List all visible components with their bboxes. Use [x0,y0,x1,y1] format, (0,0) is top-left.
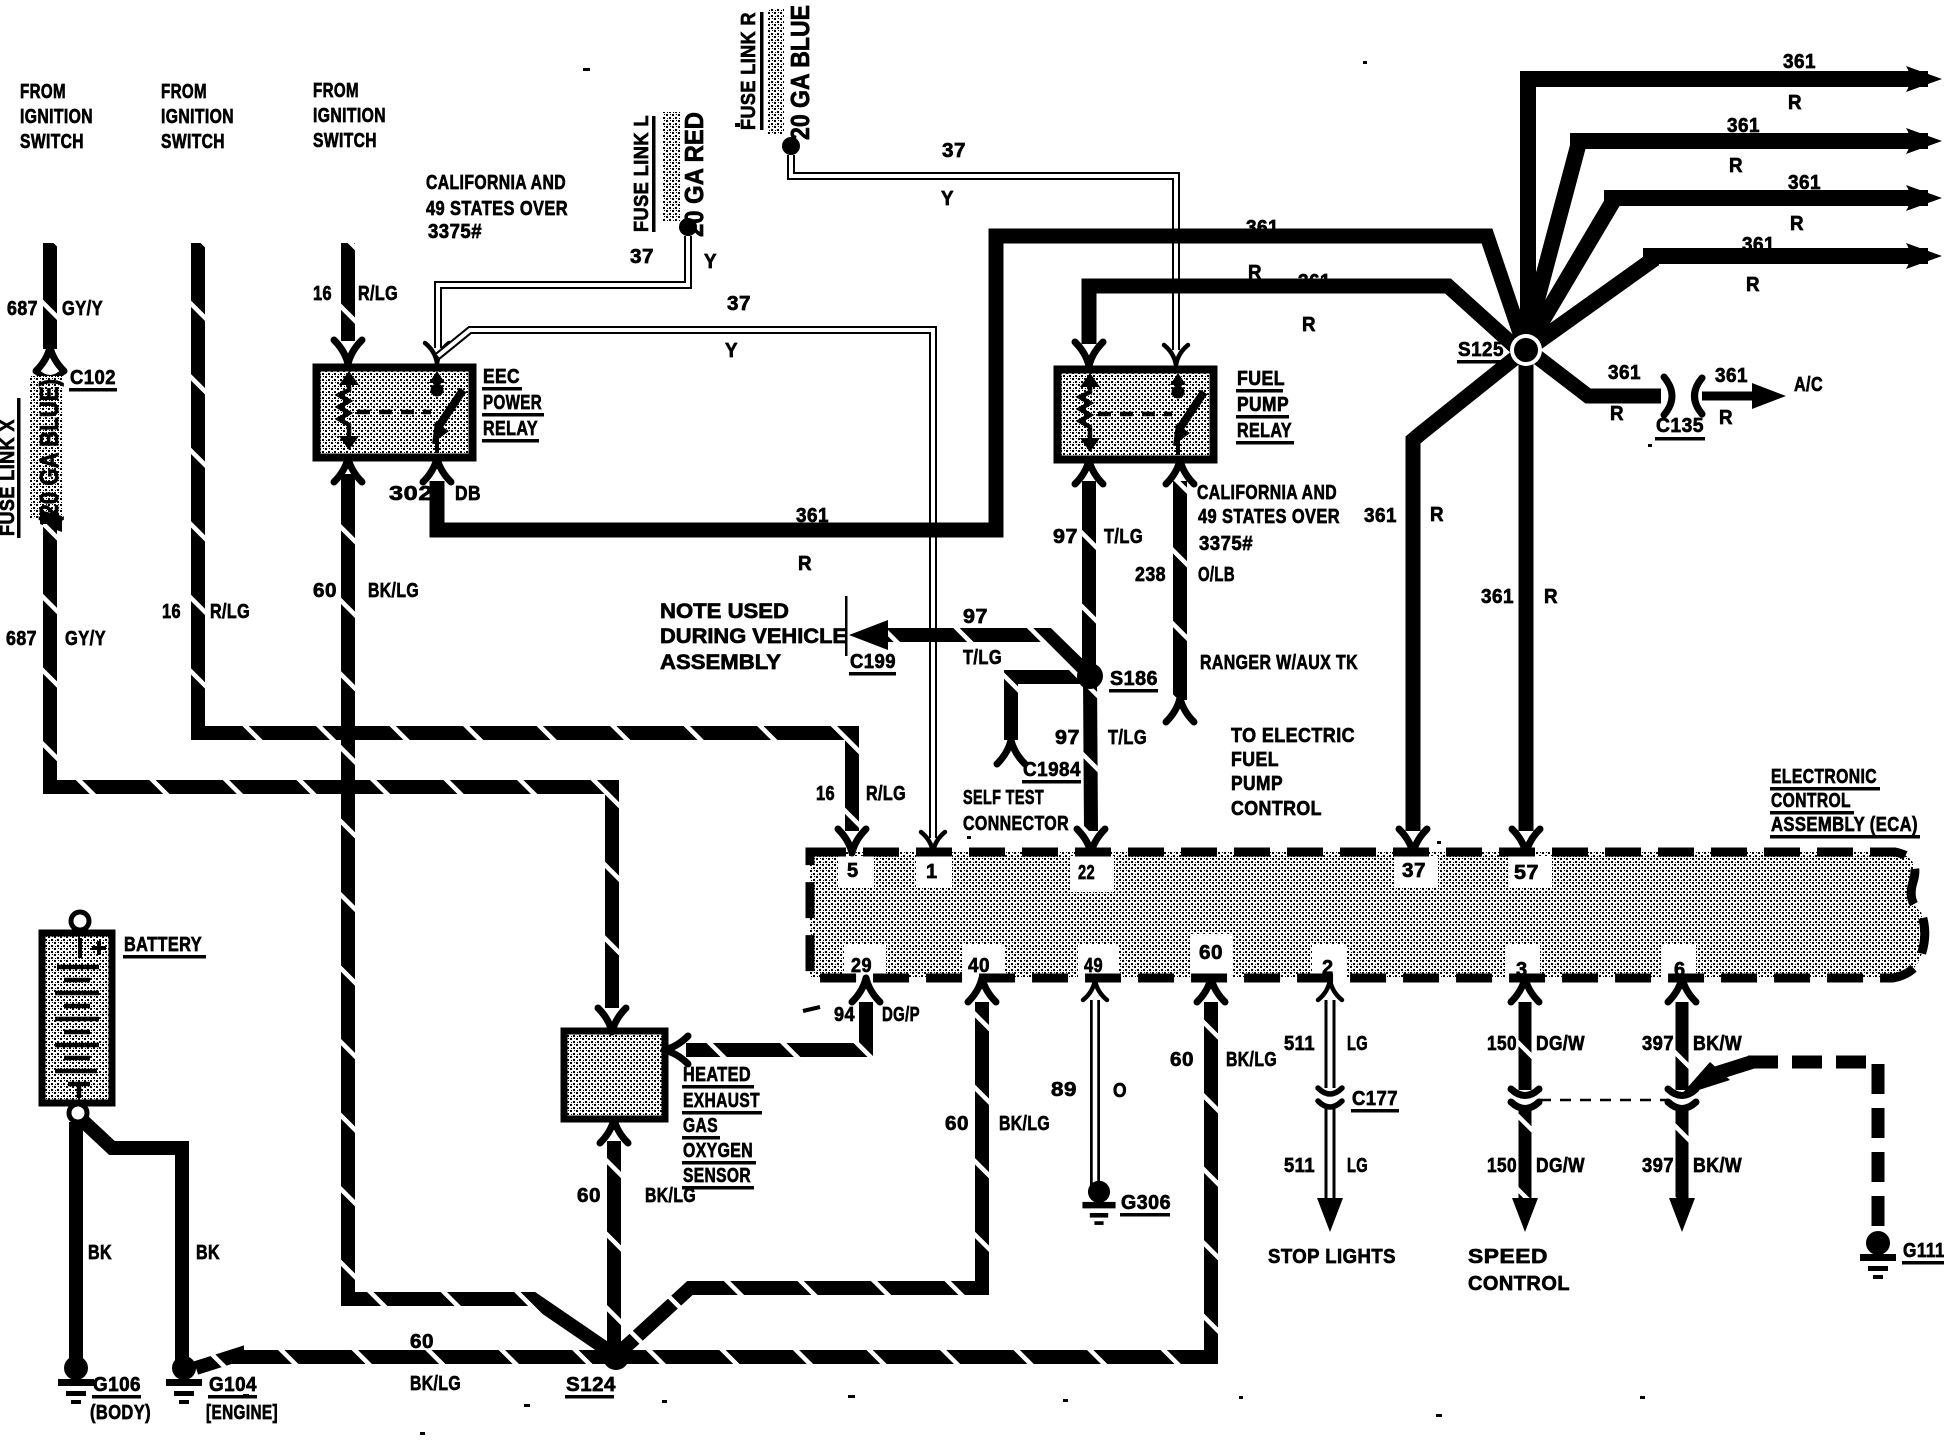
label 37 Y (EEC to ECA wire) [725,293,751,362]
ground G104 [166,1356,202,1404]
label 89 O [1051,1079,1127,1102]
svg-text:RANGER W/AUX TK: RANGER W/AUX TK [1200,652,1358,674]
wire 361 R from S125 to arrow line 3 [1529,198,1928,343]
svg-text:57: 57 [1514,862,1539,884]
ECA pin cutout 29 [844,944,886,978]
svg-text:37: 37 [1402,860,1426,882]
svg-text:R: R [1544,586,1558,608]
fork at EEC relay pin (bottom-left) [334,458,362,482]
svg-text:R/LG: R/LG [210,601,250,623]
svg-text:BK/LG: BK/LG [410,1373,461,1395]
svg-text:R: R [1719,407,1733,429]
svg-text:Y: Y [941,188,954,210]
wire 97 T/LG from S186 to self test connector C1984 [1011,677,1085,740]
fork at EEC relay pin (bottom-right) [423,458,451,482]
wire 16 R/LG from ignition switch (middle) to ECA pin 5 [198,243,852,831]
label S125 [1458,339,1504,361]
svg-text:LG: LG [1347,1155,1368,1177]
svg-text:Y: Y [704,251,717,273]
fork at HEGO right [664,1036,688,1064]
svg-text:302: 302 [389,483,433,505]
fuse link X lower connector wedge [40,510,62,532]
label 16 R/LG (near ECA pin 5) [816,783,906,805]
wire 16 R/LG from ignition switch (right) to EEC relay [341,243,355,341]
label S186 [1110,668,1158,690]
speck marks [243,61,1652,1435]
label FROM IGNITION SWITCH (left) [20,81,93,153]
wire 511 LG thin from ECA pin 2 to stop lights [1325,1000,1336,1205]
svg-text:OXYGEN: OXYGEN [683,1140,753,1162]
svg-text:SWITCH: SWITCH [161,131,225,153]
svg-text:40: 40 [968,955,990,977]
label BK (G106 wire) [88,1242,112,1264]
fuse link R terminal dot [782,137,800,155]
node S125 [1510,334,1542,366]
svg-text:C1984: C1984 [1023,759,1081,781]
fuel pump relay [1058,370,1214,460]
svg-text:CALIFORNIA AND: CALIFORNIA AND [1197,482,1337,504]
ground G306 [1082,1181,1115,1225]
fork at ECA pin 1 [921,832,945,852]
svg-text:FROM: FROM [313,80,359,102]
svg-text:397: 397 [1642,1033,1674,1055]
svg-text:BK/W: BK/W [1693,1033,1742,1055]
wire 302 DB / 361 R from EEC relay to S125 [437,236,1523,530]
thin dashed line between connector breaks [1540,1099,1668,1102]
wire 97 T/LG from C199 to S186 [880,635,1090,676]
svg-text:SENSOR: SENSOR [683,1165,751,1187]
fuse link L terminal dot [679,218,697,236]
label 16 R/LG (right wire) [313,283,398,305]
svg-text:FUEL: FUEL [1231,749,1279,771]
svg-text:R: R [1430,504,1444,526]
wire 60 BK/LG from EEC relay down and to S124 [348,474,612,1353]
fork at EEC relay pin (top-left) [334,340,362,364]
label 397 BK/W (lower) [1642,1155,1742,1177]
svg-text:511: 511 [1284,1155,1315,1177]
label 60 BK/LG (EEC relay wire) [313,580,419,602]
svg-text:BK/LG: BK/LG [999,1113,1050,1135]
label C177 [1352,1088,1398,1110]
wire 361 R from S125 to arrow line 2 [1525,141,1928,345]
connector C135 arcs [1664,377,1672,415]
fork at ECA pin 3 [1511,978,1539,1002]
svg-text:BK: BK [196,1242,220,1264]
wire 150 DG/W from ECA pin 3 to speed control [1519,1002,1532,1205]
label C102 [70,367,116,389]
svg-text:CONTROL: CONTROL [1468,1273,1570,1295]
fork at ECA pin 6 [1668,978,1696,1002]
fork at ECA pin 57 [1512,829,1540,853]
connector break on pin 3 wire [1511,1089,1539,1096]
arrowhead into C199 [849,620,888,650]
svg-text:150: 150 [1487,1155,1517,1177]
arrowhead A/C [1752,383,1786,409]
wire 361 R from S125 up to arrow line 1 [1528,79,1928,345]
fork at C1984 [997,740,1025,764]
label RANGER W/AUX TK [1200,652,1358,674]
svg-text:16: 16 [816,783,835,805]
fuse link L band [663,112,680,222]
label 150 DG/W (upper) [1487,1033,1585,1055]
svg-text:361: 361 [1246,217,1279,239]
label 97 T/LG (relay wire) [1053,526,1143,548]
node S124 [603,1344,629,1370]
svg-text:T/LG: T/LG [963,647,1002,669]
svg-text:60: 60 [577,1185,601,1207]
svg-text:361: 361 [1783,51,1816,73]
svg-text:GY/Y: GY/Y [65,628,106,650]
ground G111 [1860,1231,1896,1279]
wire 238 O/LB from fuel pump relay (ranger aux tank) [1173,481,1187,700]
svg-text:BATTERY: BATTERY [124,934,202,956]
svg-text:37: 37 [630,246,654,268]
svg-text:PUMP: PUMP [1231,773,1283,795]
fuse link R band [768,8,784,135]
svg-text:361: 361 [1715,365,1748,387]
wire 397 BK/W from ECA pin 6 to speed control [1676,1002,1689,1205]
HEGO sensor box [564,1031,665,1119]
label 361 R (line 1) [1783,51,1816,114]
battery [42,912,112,1122]
label 97 T/LG (pin 22 wire) [1055,727,1147,749]
node S186 [1077,663,1103,689]
wire 97 T/LG from S186 down to ECA pin 22 [1090,676,1091,831]
label 361 R (right of C135) [1715,365,1748,429]
electronic control assembly ECA box [810,852,1925,978]
svg-text:49 STATES OVER: 49 STATES OVER [1198,506,1340,528]
label TO ELECTRIC FUEL PUMP CONTROL [1231,725,1355,820]
svg-text:TO ELECTRIC: TO ELECTRIC [1231,725,1355,747]
label SPEED CONTROL [1468,1246,1570,1295]
fork at fuel pump relay pin (top-left) [1075,342,1103,366]
svg-text:361: 361 [1298,271,1331,293]
svg-text:NOTE USED: NOTE USED [660,600,789,623]
label FROM IGNITION SWITCH (middle) [161,81,234,153]
ECA pin cutout 2 [1312,944,1346,978]
ECA pin cutout 5 [838,856,874,888]
fork at HEGO top [598,1008,626,1032]
label S124 [566,1374,616,1396]
label 60 BK/LG (HEGO bottom wire) [577,1185,696,1207]
ECA pin cutout 40 [962,944,1004,978]
ECA pin cutout 57 [1508,856,1552,888]
svg-text:687: 687 [6,628,37,650]
svg-text:3375#: 3375# [428,221,482,243]
label G106 (BODY) [90,1374,151,1424]
svg-text:SPEED: SPEED [1468,1246,1548,1268]
wire 97 T/LG from fuel pump relay to S186 [1082,481,1096,672]
svg-text:R: R [1788,92,1802,114]
svg-text:DG/P: DG/P [882,1004,920,1026]
label G104 [ENGINE] [206,1374,278,1424]
ECA pin cutout 37 [1394,856,1438,888]
wire BK battery to G106 [69,1122,83,1360]
label 37 Y (fuse link L wire) [630,246,717,273]
svg-text:BK/LG: BK/LG [1226,1049,1277,1071]
fork at ECA pin 5 [838,829,866,853]
svg-text:T/LG: T/LG [1108,727,1147,749]
label 361 R (line 3) [1788,172,1821,235]
svg-text:FUSE LINK L: FUSE LINK L [631,115,653,232]
svg-text:361: 361 [1608,362,1641,384]
label 37 Y (fuse link R wire) [941,140,966,210]
arrowhead into pin 6 connector [1680,1062,1730,1096]
wire BK battery to G104 [82,1120,182,1360]
svg-text:DB: DB [455,483,481,505]
label 361 R (upper horizontal) [1246,217,1279,284]
label C199 [850,651,896,673]
label 361 R (left of C135) [1608,362,1641,425]
arrowhead line 2 [1906,128,1942,154]
label 94 DG/P [834,1004,920,1026]
label ELECTRONIC CONTROL ASSEMBLY (ECA) [1771,766,1918,836]
arrowhead line 4 [1906,243,1942,269]
svg-text:37: 37 [727,293,751,315]
svg-text:ASSEMBLY (ECA): ASSEMBLY (ECA) [1771,814,1918,836]
svg-text:361: 361 [1742,234,1775,256]
arrowhead speed control right [1669,1198,1695,1232]
svg-text:G111: G111 [1903,1240,1944,1262]
label CALIFORNIA AND 49 STATES OVER 3375# (left block) [426,172,568,243]
wire 361 R from S125 to A/C [1532,353,1661,396]
label 361 R (line 4) [1742,234,1775,296]
label 361 R (lower horizontal) [796,505,829,575]
svg-text:89: 89 [1051,1079,1077,1101]
wire 361 R C135 to A/C arrow [1702,392,1758,401]
label 361 R (fuel pump relay wire) [1298,271,1331,336]
svg-text:LG: LG [1347,1033,1368,1055]
connector break on pin 6 wire [1668,1089,1696,1096]
svg-text:IGNITION: IGNITION [20,106,93,128]
svg-text:Y: Y [725,340,738,362]
label 16 R/LG (middle wire) [162,601,250,623]
label 60 BK/LG (pin 60 riser) [1170,1049,1277,1071]
label FUEL PUMP RELAY [1237,368,1292,442]
ECA pin cutout 3 [1506,944,1540,978]
label 361 R (pin 37 wire) [1364,504,1444,527]
EEC power relay [317,368,473,458]
fork at fuel pump relay pin (top-right) [1164,345,1188,365]
wire 361 R from S125 down-left to ECA pin 37 [1413,354,1520,831]
svg-text:60: 60 [1170,1049,1194,1071]
label CALIFORNIA AND 49 STATES OVER 3375# (right block) [1197,482,1340,555]
svg-text:60: 60 [1199,942,1223,964]
svg-text:16: 16 [162,601,181,623]
label 238 O/LB [1135,564,1235,586]
wire 89 O thin from ECA pin 49 to G306 [1090,1000,1100,1186]
svg-text:361: 361 [1727,115,1760,137]
svg-text:R: R [1746,274,1760,296]
wire 361 R from S125 down to ECA pin 57 [1519,352,1534,831]
label STOP LIGHTS [1268,1246,1396,1268]
ground G106 [58,1356,94,1404]
label 150 DG/W (lower) [1487,1155,1585,1177]
svg-text:R: R [1790,213,1804,235]
ECA pin cutout 22 [1070,856,1114,892]
svg-text:361: 361 [1481,586,1514,608]
svg-text:2: 2 [1322,957,1334,979]
fork at fuel pump relay pin (bottom-right) [1166,460,1194,484]
svg-text:SWITCH: SWITCH [20,131,84,153]
svg-text:G104: G104 [209,1374,257,1396]
svg-text:SELF TEST: SELF TEST [963,787,1044,809]
svg-text:150: 150 [1487,1033,1517,1055]
svg-text:S124: S124 [566,1374,616,1396]
ECA pin cutout 1 [916,856,952,888]
svg-text:S186: S186 [1110,668,1158,690]
svg-text:FUSE LINK X: FUSE LINK X [0,419,19,536]
svg-text:RELAY: RELAY [483,418,538,440]
svg-text:G106: G106 [93,1374,141,1396]
label 97 T/LG (C199 wire) [963,606,1002,669]
svg-text:O/LB: O/LB [1198,564,1235,586]
fork at fuel pump relay pin (bottom-left) [1075,460,1103,484]
svg-text:[ENGINE]: [ENGINE] [206,1402,278,1424]
svg-text:(BODY): (BODY) [90,1402,151,1424]
svg-text:29: 29 [851,955,872,977]
svg-text:687: 687 [7,298,38,320]
wire 94 DG/P from HEGO right to ECA pin 29 [686,1002,866,1050]
svg-text:R: R [798,553,812,575]
ECA dashed border [810,852,1925,978]
svg-text:FUEL: FUEL [1237,368,1285,390]
svg-text:397: 397 [1642,1155,1674,1177]
svg-text:IGNITION: IGNITION [161,106,234,128]
fork at HEGO bottom [600,1119,628,1143]
svg-text:STOP LIGHTS: STOP LIGHTS [1268,1246,1396,1268]
connector C177 arcs [1318,1088,1342,1094]
wire 60 BK/LG from HEGO bottom to S124 [607,1141,621,1353]
fork at EEC relay pin (top-right) [425,343,449,363]
ECA pin cutout 49 [1078,944,1118,978]
svg-text:DG/W: DG/W [1536,1033,1585,1055]
svg-text:ELECTRONIC: ELECTRONIC [1771,766,1877,788]
svg-text:20 GA BLUE: 20 GA BLUE [785,5,815,140]
svg-text:361: 361 [1364,505,1397,527]
svg-text:R: R [1302,314,1316,336]
svg-text:PUMP: PUMP [1237,394,1289,416]
svg-text:5: 5 [847,860,859,882]
svg-text:POWER: POWER [483,392,542,414]
svg-text:3375#: 3375# [1199,533,1253,555]
svg-text:IGNITION: IGNITION [313,105,386,127]
svg-text:FROM: FROM [20,81,66,103]
svg-text:97: 97 [963,606,988,628]
fork at ECA pin 49 [1083,980,1107,1000]
svg-text:RELAY: RELAY [1237,420,1292,442]
svg-text:97: 97 [1053,526,1078,548]
svg-text:FUSE LINK R: FUSE LINK R [738,12,760,130]
label SELF TEST CONNECTOR [963,787,1069,835]
wire 361 R from S125 to arrow line 4 [1532,256,1928,346]
label 60 BK/LG (pin 40 wire) [945,1113,1050,1135]
svg-text:60: 60 [945,1113,969,1135]
svg-text:37: 37 [942,140,966,162]
wire 60 BK/LG from ECA pin 40 to S124 [621,1002,982,1351]
svg-text:A/C: A/C [1794,374,1823,396]
label 511 LG (upper) [1284,1033,1368,1055]
svg-text:20 GA RED: 20 GA RED [679,112,709,237]
connector C102 mating arc [36,371,64,378]
svg-text:238: 238 [1135,564,1166,586]
wire 37 Y thin from fuse link R to fuel pump relay [791,155,1176,350]
svg-text:C102: C102 [70,367,116,389]
svg-text:HEATED: HEATED [683,1064,751,1086]
svg-text:C135: C135 [1656,415,1704,437]
svg-text:C199: C199 [850,651,896,673]
wire 60 BK/LG from G104 stub to S124 and on to ECA pin 60 riser [196,1002,1211,1368]
label 60 BK/LG (bottom run) [410,1331,461,1395]
svg-text:BK/LG: BK/LG [645,1185,696,1207]
svg-text:94: 94 [834,1004,855,1026]
svg-text:R: R [1729,155,1743,177]
svg-text:1: 1 [926,861,938,883]
svg-text:G306: G306 [1121,1192,1171,1214]
svg-text:22: 22 [1078,862,1095,884]
label G306 [1121,1192,1171,1214]
label EEC POWER RELAY [483,366,542,440]
fork at ECA pin 22 [1077,829,1105,853]
svg-text:49: 49 [1084,955,1103,977]
svg-text:R/LG: R/LG [358,283,398,305]
svg-text:511: 511 [1284,1033,1315,1055]
svg-text:R/LG: R/LG [866,783,906,805]
svg-text:DG/W: DG/W [1536,1155,1585,1177]
svg-text:C177: C177 [1352,1088,1398,1110]
connector C102 fork [36,347,64,371]
svg-text:CONTROL: CONTROL [1771,790,1851,812]
fork at ECA pin 40 [968,978,996,1002]
label 302 DB [389,483,481,505]
ECA pin cutout 60 [1191,934,1233,978]
label FROM IGNITION SWITCH (right) [313,80,386,152]
svg-text:GAS: GAS [683,1115,718,1137]
fork at ECA pin 2 [1318,980,1342,1000]
connector C199 boundary line [845,596,848,656]
svg-text:EXHAUST: EXHAUST [683,1090,760,1112]
label BK (G104 wire) [196,1242,220,1264]
svg-text:97: 97 [1055,727,1080,749]
fork at ECA pin 29 [852,978,880,1002]
label 687 GY/Y (upper) [7,298,103,320]
svg-text:BK/W: BK/W [1693,1155,1742,1177]
svg-text:49 STATES OVER: 49 STATES OVER [426,198,568,220]
fork at end of 238 wire [1166,698,1194,722]
svg-text:361: 361 [796,505,829,527]
label A/C [1794,374,1823,396]
svg-text:O: O [1113,1080,1127,1102]
wire 687 GY/Y lower segment to HEGO sensor [50,524,612,1008]
label BATTERY [124,934,202,956]
svg-text:CONNECTOR: CONNECTOR [963,813,1069,835]
label 361 R (line 2) [1727,115,1760,177]
arrowhead stop lights [1317,1198,1343,1232]
arrowhead line 1 [1906,66,1942,92]
wire 37 Y thin from fuse link L to EEC relay [438,236,688,348]
svg-text:60: 60 [410,1331,434,1353]
label 361 R (pin 57 wire) [1481,586,1558,608]
fork at ECA pin 37 [1399,829,1427,853]
svg-text:BK: BK [88,1242,112,1264]
svg-text:16: 16 [313,283,332,305]
svg-text:FROM: FROM [161,81,207,103]
tick mark near 94 [803,1007,820,1011]
wire 687 GY/Y from ignition switch (upper segment) [43,243,57,349]
arrowhead line 3 [1906,185,1942,211]
svg-text:GY/Y: GY/Y [62,298,103,320]
svg-text:T/LG: T/LG [1104,526,1143,548]
